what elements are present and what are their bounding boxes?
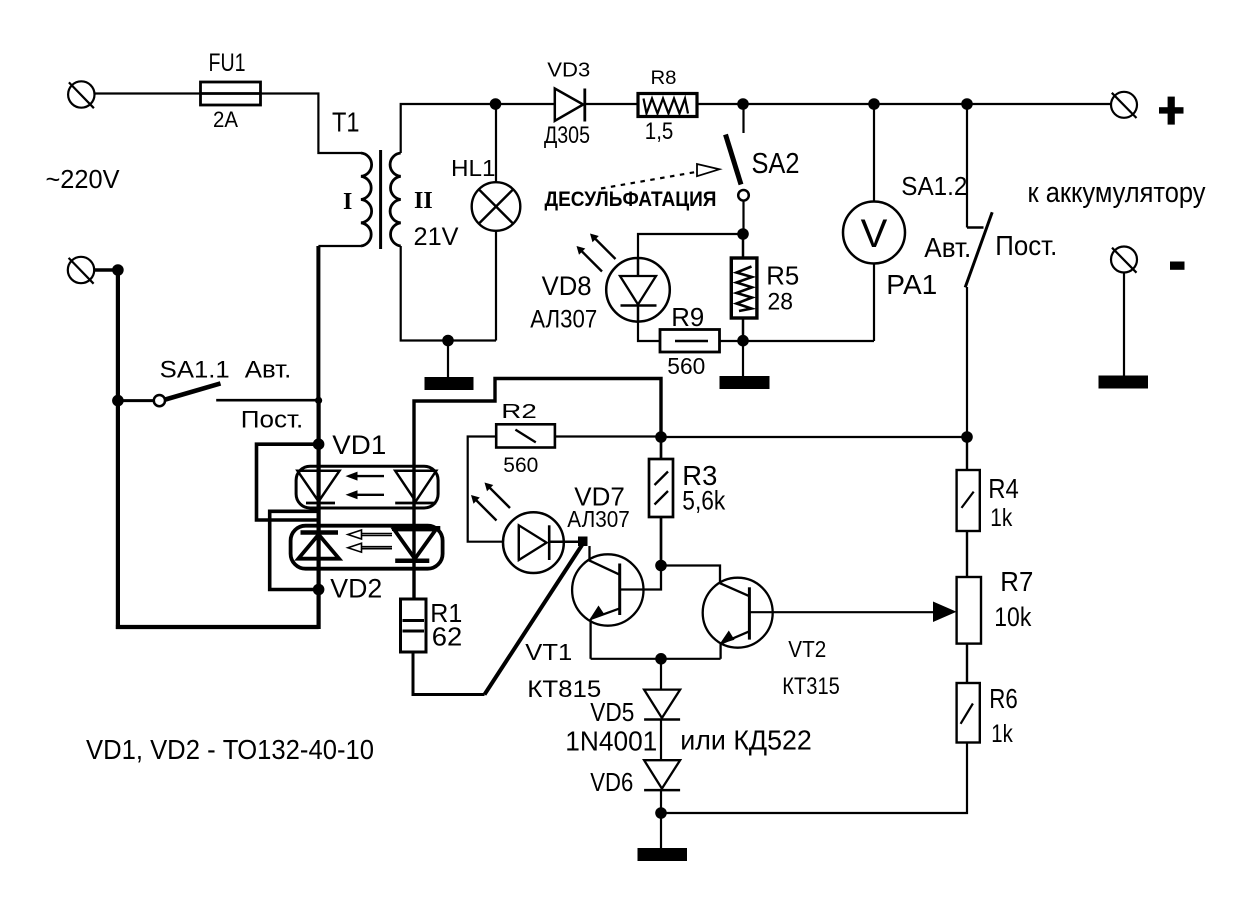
svg-text:PA1: PA1 [886, 269, 937, 300]
wire node to PA1 bottom [720, 340, 875, 342]
svg-text:SA2: SA2 [752, 148, 800, 180]
svg-text:FU1: FU1 [209, 49, 246, 77]
T1 core [379, 150, 382, 249]
voltmeter PA1 [843, 104, 905, 341]
svg-text:VT1: VT1 [525, 639, 572, 665]
svg-text:R8: R8 [651, 68, 677, 89]
VD2 hollow arrows [348, 530, 392, 552]
svg-text:VD6: VD6 [590, 767, 633, 797]
node at X2 branch [112, 264, 124, 276]
node VD2 bottom [313, 584, 325, 596]
svg-text:R5: R5 [766, 260, 799, 290]
resistor R9 [660, 330, 720, 353]
svg-text:VD1, VD2 - ТО132-40-10: VD1, VD2 - ТО132-40-10 [86, 734, 374, 765]
svg-text:5,6k: 5,6k [682, 486, 725, 516]
potentiometer R7 [957, 577, 981, 683]
svg-text:АЛ307: АЛ307 [567, 506, 630, 532]
svg-text:R9: R9 [671, 302, 704, 332]
terminal plus [1111, 92, 1137, 118]
arrow into R7 [933, 602, 957, 623]
diode VD3 [555, 89, 585, 122]
wire R8 to plus terminal [697, 103, 1111, 105]
svg-text:R4: R4 [988, 473, 1019, 504]
wire bottom rail to R6 [661, 743, 967, 814]
svg-text:T1: T1 [332, 107, 360, 138]
svg-text:к аккумулятору: к аккумулятору [1028, 177, 1206, 209]
switch SA1.1 [123, 383, 318, 406]
svg-text:или КД522: или КД522 [680, 724, 812, 755]
wire VD5 to VD6 [660, 720, 662, 761]
ground G2 [720, 341, 770, 389]
svg-text:ДЕСУЛЬФАТАЦИЯ: ДЕСУЛЬФАТАЦИЯ [545, 188, 717, 211]
wire secondary top to rail [401, 104, 496, 153]
plus sign [1159, 97, 1184, 125]
svg-text:560: 560 [503, 453, 538, 477]
wire primary bottom to VD1 node (bold vertical) [317, 398, 321, 629]
VD8 emission arrows [577, 234, 616, 272]
wire R1 bottom [413, 652, 485, 695]
node VD1 top [313, 438, 325, 450]
wire X2 to node [95, 268, 118, 272]
transistor VT2 [661, 566, 773, 659]
switch SA1.2 [965, 104, 992, 437]
svg-text:R6: R6 [989, 683, 1018, 714]
svg-text:Пост.: Пост. [241, 407, 303, 434]
bold path from right column to R2/R3 node [414, 379, 661, 467]
svg-text:~220V: ~220V [46, 164, 121, 194]
wire left vertical bold [116, 270, 120, 629]
transformer T1 secondary winding II [390, 153, 401, 246]
node R2/R3 [655, 431, 667, 443]
wire SA2 node to VD8 [638, 234, 743, 259]
wire X1 to FU1 [95, 92, 201, 94]
hook wire VD1 node to mid [257, 444, 321, 520]
resistor R5 [731, 234, 757, 341]
svg-text:62: 62 [432, 624, 463, 652]
lamp HL1 [472, 104, 521, 341]
hook wire mid to VD2 node [270, 511, 320, 589]
VD1 right diode [395, 471, 436, 503]
svg-text:КТ315: КТ315 [782, 673, 840, 700]
ground G4 [638, 813, 688, 861]
svg-text:V: V [861, 212, 888, 256]
minus sign [1170, 262, 1185, 270]
switch SA2 [726, 104, 749, 234]
svg-text:Д305: Д305 [544, 122, 590, 149]
node rail-SA2 [737, 98, 749, 110]
svg-text:560: 560 [667, 353, 705, 379]
svg-text:2A: 2A [213, 107, 238, 132]
ground G1 [425, 341, 474, 391]
svg-text:1,5: 1,5 [645, 118, 674, 145]
diode VD5 [644, 690, 680, 720]
svg-text:VD5: VD5 [590, 697, 634, 727]
svg-text:Авт.: Авт. [245, 357, 291, 384]
node SA2-bottom [737, 228, 749, 240]
emitter rail [591, 658, 721, 660]
svg-text:VD1: VD1 [332, 430, 386, 460]
VD7 emission arrows [471, 483, 510, 521]
transistor VT1 [572, 546, 661, 659]
wire node to VD5 [660, 659, 662, 690]
svg-text:SA1.1: SA1.1 [160, 357, 230, 384]
junction square [578, 537, 588, 547]
resistor R1 [401, 599, 427, 652]
wire primary-bottom vertical bold [316, 246, 320, 402]
node at SA1.1/vertical junction [315, 397, 322, 404]
terminal minus [1111, 247, 1137, 273]
resistor R4 [957, 437, 980, 577]
svg-text:21V: 21V [414, 223, 459, 251]
dashed pointer arrow [601, 164, 719, 189]
LED VD8 [606, 258, 670, 322]
node rail-PA1 [868, 98, 880, 110]
wire R2/R3 node to SA1.2 node [661, 436, 967, 438]
wire R2 right to node [555, 435, 661, 437]
resistor R8 [638, 94, 697, 117]
terminal X1 top-left [68, 81, 94, 108]
wire VD3 to R8 [585, 103, 638, 105]
thyristor module VD1 package [296, 466, 438, 508]
svg-text:VT2: VT2 [788, 636, 826, 662]
node R5/R9 bottom [737, 335, 749, 347]
svg-text:II: II [414, 188, 433, 214]
VD2 right diode [392, 529, 440, 561]
node R3 bottom [655, 560, 667, 572]
svg-text:VD2: VD2 [330, 574, 382, 604]
wire R2 left down to VD7 [468, 437, 503, 542]
node rail-SA1.2 [961, 98, 973, 110]
resistor R6 [957, 683, 980, 743]
svg-text:R7: R7 [1000, 566, 1033, 597]
svg-text:Пост.: Пост. [995, 230, 1057, 261]
resistor R3 [649, 437, 673, 566]
wire rail to VD3 [496, 103, 555, 105]
wire T1 primary bottom [318, 245, 361, 247]
transformer T1 primary winding I [361, 153, 372, 246]
svg-text:1k: 1k [991, 720, 1013, 748]
svg-text:Авт.: Авт. [924, 232, 971, 263]
thyristor module VD2 package [291, 526, 443, 569]
wire VD8 to R9 [638, 321, 660, 342]
svg-text:28: 28 [768, 289, 794, 316]
svg-text:HL1: HL1 [451, 155, 496, 181]
wire bottom of left loop [116, 625, 319, 629]
resistor R2 [496, 424, 555, 447]
LED VD7 [503, 512, 578, 573]
wire VD6 to bottom node [660, 790, 662, 813]
wire VT2 base to R7 [749, 611, 934, 613]
svg-text:10k: 10k [994, 602, 1031, 632]
right column vertical through packages [412, 466, 415, 599]
node SA1.1 left [112, 395, 124, 407]
node emitter rail [655, 653, 667, 665]
node bottom [655, 807, 667, 819]
svg-text:VD8: VD8 [542, 271, 592, 301]
wire secondary bottom [401, 246, 496, 341]
node SA1.2 bottom [961, 431, 973, 443]
VD1 arrows [346, 472, 385, 500]
svg-text:АЛ307: АЛ307 [530, 306, 597, 334]
svg-text:1k: 1k [990, 504, 1012, 532]
svg-text:I: I [343, 189, 352, 215]
node secondary-ground [442, 335, 454, 347]
terminal X2 lower-left [68, 257, 94, 284]
diode VD6 [644, 760, 680, 790]
svg-text:SA1.2: SA1.2 [901, 171, 967, 201]
svg-text:1N4001: 1N4001 [565, 726, 657, 757]
fuse FU1 [201, 82, 261, 105]
svg-text:R2: R2 [501, 400, 537, 423]
svg-text:VD3: VD3 [547, 59, 590, 82]
wire FU1 to T1 primary top [261, 94, 362, 154]
VD1 left diode [298, 471, 340, 503]
ground G3 [1099, 273, 1149, 389]
VD2 left diode [298, 533, 339, 559]
node rail-HL1 [490, 98, 502, 110]
wire diagonal to VD7/VT1 junction [485, 544, 584, 695]
